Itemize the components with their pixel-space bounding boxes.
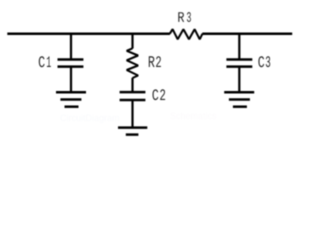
svg-text:CircuitDiagram: CircuitDiagram bbox=[60, 113, 120, 123]
svg-text:Schematics: Schematics bbox=[170, 111, 217, 121]
